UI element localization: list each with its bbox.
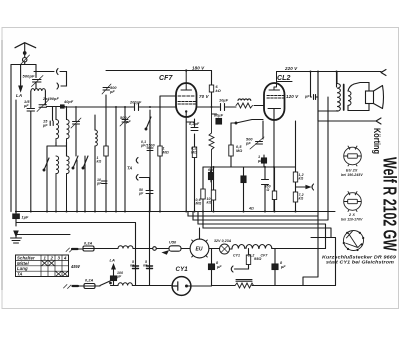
resistor 0.5M — [229, 145, 233, 156]
svg-text:1µF: 1µF — [22, 216, 29, 220]
lamp dial — [210, 244, 233, 254]
svg-text:0,3A: 0,3A — [84, 242, 93, 246]
capacitor 500pF trimmer top — [102, 84, 111, 94]
svg-text:TA: TA — [17, 272, 23, 277]
transformer output primary coil — [337, 84, 340, 112]
connector output — [376, 118, 381, 124]
svg-text:95Ω: 95Ω — [254, 257, 262, 261]
heater CF7 — [259, 245, 272, 249]
wire mid verticals — [116, 107, 160, 212]
svg-text:0,2A: 0,2A — [85, 279, 94, 283]
svg-text:4Ω: 4Ω — [248, 207, 254, 211]
wire secondary to speaker top — [348, 83, 369, 92]
fuse 0.3A — [83, 246, 118, 251]
tube CL2 — [264, 72, 285, 121]
svg-text:10µF: 10µF — [219, 99, 229, 103]
capacitor 8uF b — [272, 249, 278, 286]
wire grid start — [47, 106, 61, 108]
wire drops below 167 — [203, 121, 296, 212]
wire ground return — [16, 223, 136, 265]
svg-text:kΩ: kΩ — [299, 197, 304, 201]
svg-text:U50: U50 — [169, 241, 177, 245]
svg-text:Körting: Körting — [372, 128, 382, 154]
svg-text:pF: pF — [109, 90, 115, 94]
svg-text:Lang: Lang — [17, 266, 28, 271]
capacitor 200pF series — [135, 104, 139, 111]
wire antenna node — [11, 62, 36, 65]
terminal LA bottom — [111, 265, 117, 286]
transformer secondary coil — [348, 91, 351, 105]
svg-text:MΩ: MΩ — [236, 149, 242, 153]
wire transformer bottom return — [318, 110, 337, 113]
svg-text:EU 2X: EU 2X — [346, 169, 358, 173]
svg-text:µF: µF — [280, 265, 286, 269]
wire rail drop to output — [318, 72, 337, 122]
resistor tap upper — [293, 172, 297, 182]
resistor field zigzag — [235, 280, 254, 289]
capacitor 2x490pF gang — [37, 91, 49, 112]
coil IF tall — [95, 130, 97, 146]
wire nested bus line 1 — [188, 72, 318, 286]
svg-text:6µF: 6µF — [208, 168, 215, 172]
svg-text:2: 2 — [50, 256, 54, 261]
resistor 95ohm — [246, 255, 250, 265]
transformer core bar — [343, 85, 345, 111]
svg-text:70 V: 70 V — [199, 94, 210, 99]
svg-text:500pF: 500pF — [23, 74, 36, 79]
ground symbol — [11, 231, 22, 243]
svg-text:EU: EU — [196, 247, 203, 253]
tube CF7 — [176, 69, 197, 117]
svg-text:LA: LA — [110, 258, 116, 263]
wire CF7 grid side — [197, 106, 212, 108]
wire nested bus line 4 — [203, 212, 331, 238]
capacitor 80uF block — [212, 114, 222, 124]
tube CY1 — [172, 277, 191, 296]
connector right rail — [381, 70, 386, 76]
speaker — [366, 86, 384, 109]
capacitor 0.1uF coupling — [310, 71, 319, 100]
svg-text:TA: TA — [127, 166, 132, 171]
fuse 0.2A — [84, 284, 100, 289]
svg-text:µF: µF — [23, 104, 29, 108]
capacitor 500pF trimmer — [32, 65, 44, 89]
resistor 1M — [158, 146, 162, 156]
svg-text:180 V: 180 V — [192, 66, 205, 71]
wire CF7 screen lead — [160, 96, 176, 140]
resistor 0.2M — [192, 147, 196, 158]
resistor tap lower — [293, 192, 297, 202]
wire nested bus line 5 — [311, 238, 336, 286]
mains connector bottom — [64, 285, 72, 289]
svg-text:pF: pF — [245, 142, 251, 146]
wire switch drops — [231, 121, 263, 167]
wire secondary to speaker bottom — [348, 104, 369, 111]
svg-text:45W: 45W — [70, 264, 81, 269]
svg-text:MΩ: MΩ — [196, 202, 202, 206]
svg-text:0,2µF: 0,2µF — [189, 122, 200, 126]
coil L4 — [67, 156, 70, 212]
wire cathode bus CL2 — [203, 166, 296, 168]
capacitor 0.1uF — [147, 148, 153, 151]
fuse U50 — [163, 246, 190, 254]
capacitor 1uF block — [13, 212, 19, 227]
svg-text:pF: pF — [96, 182, 102, 186]
svg-text:CY1: CY1 — [176, 266, 189, 273]
capacitor 6uF — [262, 180, 269, 185]
wire left main vertical — [10, 65, 12, 212]
svg-text:2x490pF: 2x490pF — [42, 97, 59, 101]
capacitor cathode block — [241, 176, 246, 183]
svg-text:200pF: 200pF — [129, 101, 142, 105]
wire nested bus line 3 — [198, 212, 326, 249]
svg-text:MΩ: MΩ — [163, 151, 169, 155]
capacitor 500pF trimmer mid — [120, 116, 130, 126]
coil L1 — [56, 120, 59, 143]
svg-text:µF: µF — [257, 159, 263, 163]
svg-text:pF: pF — [125, 120, 131, 124]
svg-text:32V 0,23A: 32V 0,23A — [214, 239, 232, 243]
svg-text:Mittel: Mittel — [17, 261, 30, 266]
wire verticals to bus — [16, 95, 106, 212]
svg-text:220 V: 220 V — [284, 66, 298, 71]
svg-text:µF: µF — [304, 95, 310, 99]
svg-text:Schalter: Schalter — [17, 255, 35, 260]
svg-text:2 X: 2 X — [348, 213, 355, 217]
table switch positions — [16, 255, 69, 277]
coil antenna — [31, 89, 45, 91]
capacitor 40pF trimmer block — [60, 104, 65, 108]
capacitor 10uF series — [221, 104, 225, 111]
page edge shading — [1, 40, 3, 290]
svg-text:MΩ: MΩ — [191, 151, 197, 155]
capacitor c block — [209, 173, 214, 180]
svg-text:bei 190-245V: bei 190-245V — [341, 173, 363, 177]
capacitor 15uF stub — [50, 107, 53, 126]
svg-text:µF: µF — [42, 124, 48, 128]
svg-text:Ω: Ω — [266, 188, 270, 192]
resistor 1k — [104, 146, 108, 156]
capacitor 5nF a — [133, 264, 139, 286]
switch mains — [100, 281, 114, 286]
wire coil feeds — [56, 107, 76, 122]
svg-text:Welf R 2102 GW: Welf R 2102 GW — [380, 157, 400, 251]
resistor zigzag vertical — [209, 107, 214, 212]
svg-text:kΩ: kΩ — [97, 160, 102, 164]
svg-text:nF: nF — [143, 264, 148, 268]
rail 220V — [277, 71, 382, 73]
junction dots bus — [15, 211, 297, 213]
rail 180V — [106, 70, 212, 72]
wire anode chain CL2 grid — [212, 71, 265, 108]
capacitor 50uF — [146, 191, 153, 194]
svg-text:statt CY1 bei Gleichstrom: statt CY1 bei Gleichstrom — [326, 260, 394, 265]
socket EU 2X top view — [344, 146, 362, 166]
resistor r2 — [211, 190, 215, 200]
terminal LA arrow — [19, 65, 22, 92]
resistor 350 — [272, 191, 276, 200]
svg-text:CF7: CF7 — [261, 254, 269, 258]
junction circle — [153, 247, 157, 251]
svg-text:LA: LA — [16, 93, 22, 98]
junction dots — [115, 106, 275, 168]
svg-text:40pF: 40pF — [63, 100, 74, 104]
wire CF7 cathode down — [186, 117, 194, 212]
wire grid CF7 — [65, 106, 176, 108]
capacitor trimmer variable — [71, 118, 81, 128]
wire CL2 cathode down — [273, 120, 275, 212]
tube EU — [190, 228, 209, 258]
wire nested bus line 2 — [193, 97, 328, 220]
capacitor 0.2uF — [191, 128, 198, 131]
switch mid — [145, 117, 151, 130]
coil mains choke — [118, 283, 132, 286]
wire output line to connector — [318, 120, 376, 122]
svg-text:4: 4 — [63, 256, 67, 261]
antenna — [15, 43, 36, 65]
capacitor 5nF b — [147, 212, 153, 286]
coil L3 — [56, 156, 59, 212]
resistor coil combo — [236, 99, 253, 108]
svg-text:µF: µF — [138, 192, 144, 196]
wire antenna top loop with connectors — [34, 69, 67, 90]
heater CY1 — [232, 245, 245, 249]
switch wave band 2 — [72, 156, 78, 212]
coil L2 — [67, 120, 70, 143]
capacitor 10pF small — [102, 181, 108, 184]
svg-text:kΩ: kΩ — [216, 89, 221, 93]
svg-text:kΩ: kΩ — [207, 201, 212, 205]
label CL2 underline — [278, 81, 293, 83]
capacitor 4uF block — [262, 155, 267, 167]
socket shorting plug — [343, 231, 365, 252]
svg-text:CF7: CF7 — [159, 75, 174, 82]
jack pickup — [231, 265, 248, 273]
capacitor 8uF a — [209, 249, 215, 286]
wire CF7 side chain — [194, 119, 196, 212]
switch CL2 — [231, 120, 263, 124]
arrow tap connector — [296, 184, 314, 190]
capacitor 500pF trimmer CL2 — [250, 137, 264, 149]
svg-text:120 V: 120 V — [286, 94, 299, 99]
svg-text:CL2: CL2 — [277, 75, 291, 82]
svg-text:bei 110-170V: bei 110-170V — [341, 218, 363, 222]
mains connector top — [66, 248, 73, 252]
jack TA contacts — [136, 158, 149, 191]
svg-text:nF: nF — [130, 264, 135, 268]
svg-text:kΩ: kΩ — [299, 177, 304, 181]
wire tuner bottoms — [47, 124, 76, 156]
switch wave band 3 — [82, 156, 88, 169]
svg-text:µF: µF — [116, 275, 122, 279]
capacitor 1/5uF antenna — [27, 91, 35, 212]
heater CL2 — [246, 245, 259, 249]
socket 2X top view — [344, 191, 362, 211]
ground bus — [16, 211, 336, 213]
svg-text:µF: µF — [216, 265, 222, 269]
resistor r1 — [201, 189, 205, 199]
resistor 6k — [209, 85, 213, 92]
svg-text:CY1: CY1 — [233, 254, 240, 258]
svg-text:80µF: 80µF — [214, 114, 224, 118]
switch wave band 1 — [43, 158, 49, 171]
svg-text:µF/1500: µF/1500 — [140, 144, 155, 148]
coil heater choke — [118, 246, 133, 249]
